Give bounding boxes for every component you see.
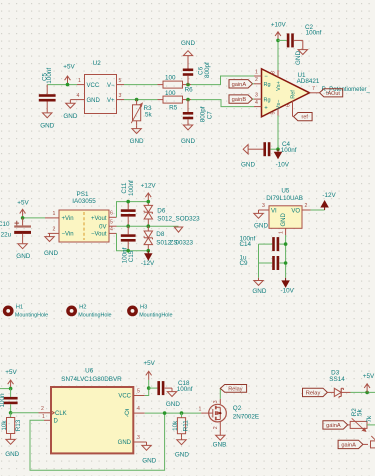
- wire C14/C9 left to ground: [258, 244, 260, 278]
- capacitor C18 100nf: [149, 380, 193, 395]
- svg-text:+5V: +5V: [363, 373, 375, 380]
- svg-text:MountingHole: MountingHole: [78, 312, 111, 318]
- capacitor C10 22u polarized: [0, 218, 31, 243]
- U6 pin 3 GND: [118, 435, 147, 446]
- svg-text:H3: H3: [140, 305, 147, 311]
- power -12V at U5 output: [321, 192, 336, 210]
- svg-text:gainA: gainA: [326, 423, 341, 429]
- svg-text:R6: R6: [185, 87, 194, 94]
- ground right of C2: [295, 40, 308, 65]
- mounting hole H1: [3, 305, 48, 319]
- svg-text:+5V: +5V: [5, 369, 17, 376]
- svg-text:V−: V−: [107, 83, 115, 89]
- svg-text:D: D: [54, 419, 59, 425]
- svg-text:+12V: +12V: [141, 182, 157, 189]
- svg-text:D8: D8: [156, 231, 165, 238]
- svg-text:7: 7: [312, 86, 315, 92]
- ps module PS1 box: [59, 210, 109, 242]
- tvs diode D6: [144, 202, 200, 227]
- svg-text:2: 2: [41, 406, 44, 412]
- junction C9 right: [284, 261, 288, 265]
- U1 pin 4 +IN: [254, 100, 268, 112]
- PS1 pin 5 0V: [99, 219, 116, 230]
- wire R5 to op-amp pin 4: [191, 100, 254, 107]
- wire R2 to right edge: [367, 424, 375, 426]
- wire U2 V- to R6: [124, 84, 158, 86]
- wire op-amp Vs- down: [277, 116, 279, 150]
- svg-text:D6: D6: [157, 207, 166, 214]
- svg-text:10k: 10k: [172, 420, 179, 431]
- svg-text:V+: V+: [107, 98, 115, 104]
- ground at U2 pin 4: [63, 100, 77, 121]
- svg-text:GND: GND: [166, 401, 180, 408]
- U1 reference and value: [297, 72, 320, 85]
- transistor Q2 2N7002E: [209, 399, 259, 432]
- svg-text:U2: U2: [93, 60, 102, 67]
- svg-text:GND: GND: [241, 162, 255, 169]
- U1 pin 8 Vs+: [271, 70, 282, 91]
- junction C11 bottom: [126, 224, 130, 228]
- svg-text:1: 1: [279, 231, 285, 234]
- U1 pin 5 Vs-: [271, 100, 282, 116]
- ground below caps: [252, 278, 266, 295]
- svg-text:GND: GND: [130, 138, 144, 145]
- junction R6/C6: [186, 83, 190, 87]
- svg-text:Q: Q: [124, 411, 129, 417]
- U1 pin 1 -IN: [254, 69, 268, 80]
- power -10V below op-amp: [275, 149, 290, 168]
- junction C14 right: [284, 242, 288, 246]
- svg-text:100nf: 100nf: [128, 180, 135, 196]
- power +5V (U6 VCC): [144, 360, 156, 380]
- trim pot R2 5k: [348, 408, 367, 432]
- svg-text:+Vin: +Vin: [62, 216, 74, 222]
- svg-text:SS14: SS14: [329, 376, 345, 383]
- svg-text:-12V: -12V: [141, 260, 155, 267]
- svg-text:U5: U5: [281, 187, 290, 194]
- ground below C5: [40, 112, 54, 129]
- svg-text:2: 2: [305, 203, 308, 209]
- svg-text:7k: 7k: [366, 415, 373, 423]
- ic U6 box: [51, 387, 133, 453]
- svg-text:PS1: PS1: [77, 191, 89, 198]
- tvs diode D8: [144, 226, 193, 251]
- svg-text:Rg: Rg: [264, 82, 271, 88]
- svg-text:GND: GND: [63, 113, 77, 120]
- svg-text:+5V: +5V: [63, 64, 75, 71]
- svg-text:VO: VO: [291, 209, 300, 215]
- svg-text:100nf: 100nf: [177, 386, 193, 393]
- svg-text:IAOut: IAOut: [326, 91, 340, 97]
- wire U5 VO to -12V: [311, 209, 325, 211]
- svg-text:−: −: [264, 74, 268, 80]
- U5 pin 1 GND: [279, 213, 287, 236]
- open arrow 0V: [174, 227, 182, 232]
- resistor at right edge (clipped): [371, 436, 375, 448]
- hier label ref: [294, 113, 313, 121]
- power -12V below D8: [141, 251, 155, 267]
- svg-text:4: 4: [77, 93, 80, 99]
- svg-text:6: 6: [110, 210, 113, 216]
- svg-text:GND: GND: [295, 51, 302, 65]
- junction D6/D8 mid: [147, 224, 151, 228]
- diode D3 SS14 schottky: [327, 370, 350, 399]
- svg-text:2N7002E: 2N7002E: [233, 413, 259, 420]
- wire D feedback loop: [30, 413, 165, 470]
- junction CLK/R13: [9, 411, 13, 415]
- U5 reference and value: [266, 187, 303, 202]
- PS1 reference and value: [72, 191, 96, 205]
- svg-text:C7: C7: [207, 111, 214, 120]
- svg-text:5: 5: [110, 219, 113, 225]
- svg-text:GND: GND: [16, 253, 30, 260]
- ground GNB below Q2: [213, 432, 227, 449]
- svg-text:gainA: gainA: [232, 82, 247, 88]
- U6 pin 2 CLK: [39, 406, 67, 417]
- junction +5V: [66, 83, 70, 87]
- svg-text:R13: R13: [15, 419, 22, 431]
- wire VCC to +5V and C18: [145, 380, 149, 396]
- capacitor C5 100nf: [39, 68, 56, 113]
- svg-text:5k: 5k: [356, 408, 363, 416]
- PS1 pin 2 -Vin: [48, 227, 74, 238]
- svg-text:IA03055: IA03055: [72, 198, 96, 205]
- capacitor C4 100nf: [252, 141, 297, 156]
- U1 pin 3 Rg: [254, 92, 271, 103]
- svg-text:0V: 0V: [99, 224, 106, 230]
- wire C5 to U2 VCC: [47, 84, 77, 86]
- U6 reference and value: [61, 367, 122, 382]
- svg-text:gainA: gainA: [341, 443, 356, 449]
- svg-text:gainB: gainB: [232, 97, 247, 103]
- capacitor C2 100nf: [278, 24, 322, 47]
- wire R6 to op-amp pin 1: [191, 76, 254, 85]
- svg-text:1: 1: [53, 211, 56, 217]
- svg-text:2: 2: [255, 77, 258, 83]
- svg-text:C10: C10: [0, 221, 10, 228]
- PS1 pin 1 +Vin: [45, 211, 74, 222]
- wire U2 V+ to R3/R5: [124, 99, 158, 101]
- svg-text:VCC: VCC: [87, 83, 100, 89]
- U2 pin 1 VCC: [77, 78, 100, 89]
- PS1 pin 4 -Vout: [91, 227, 117, 238]
- svg-text:Q2: Q2: [233, 405, 242, 412]
- hier label gainB: [229, 95, 254, 103]
- svg-text:100: 100: [165, 75, 176, 82]
- resistor R13 10k: [1, 413, 22, 439]
- svg-text:GND: GND: [181, 40, 195, 47]
- svg-text:-10V: -10V: [276, 162, 290, 169]
- capacitor C11 100nf: [121, 180, 136, 226]
- wire +5V to PS1 +Vin: [23, 217, 45, 219]
- op-amp U1 AD8421 triangle: [262, 69, 310, 117]
- svg-text:-12V: -12V: [322, 192, 336, 199]
- ground below C10: [16, 243, 30, 260]
- svg-text:GND: GND: [44, 250, 58, 257]
- U6 pin 1 D: [42, 414, 58, 425]
- mounting hole H2: [66, 305, 111, 319]
- U6 pin 5 VCC: [118, 389, 144, 400]
- svg-text:H1: H1: [16, 305, 23, 311]
- svg-text:100nf: 100nf: [306, 30, 322, 37]
- svg-text:4: 4: [137, 406, 140, 412]
- ic U2 box: [85, 75, 117, 114]
- U6 pin 4 Q: [124, 406, 144, 417]
- junction R5/C7: [186, 98, 190, 102]
- svg-text:DI79L10UAB: DI79L10UAB: [266, 195, 303, 202]
- capacitor C14 100nf: [240, 235, 286, 251]
- svg-text:5k: 5k: [145, 112, 153, 119]
- ground above C6: [181, 40, 195, 69]
- svg-text:800pf: 800pf: [199, 106, 206, 122]
- svg-text:CLK: CLK: [55, 411, 67, 417]
- svg-text:Vs+: Vs+: [276, 81, 282, 91]
- Q2 pin 1 gate: [198, 406, 208, 413]
- svg-text:Vs−: Vs−: [276, 100, 282, 110]
- hier label IAOut: [320, 89, 343, 97]
- hier label gainA (row 2): [338, 440, 368, 448]
- svg-text:MountingHole: MountingHole: [15, 312, 48, 318]
- svg-text:+5V: +5V: [144, 360, 156, 367]
- regulator U5 box: [269, 206, 302, 229]
- capacitor C7 800pf: [183, 100, 214, 123]
- svg-text:Relay: Relay: [306, 391, 321, 397]
- svg-text:22u: 22u: [1, 232, 12, 239]
- svg-text:SN74LVC1G80DBVR: SN74LVC1G80DBVR: [61, 376, 122, 383]
- svg-text:Relay: Relay: [228, 387, 243, 393]
- svg-text:GND: GND: [175, 452, 189, 459]
- wire 0V rail: [117, 225, 179, 227]
- junction +10V/C2: [276, 39, 280, 43]
- svg-text:100nf: 100nf: [46, 68, 53, 84]
- svg-text:R11: R11: [182, 420, 189, 432]
- svg-text:10k: 10k: [1, 420, 8, 431]
- wire from left edge to +5V: [0, 388, 11, 390]
- U2 pin 5 V-: [107, 78, 124, 89]
- ground below R11: [175, 437, 189, 458]
- svg-text:MountingHole: MountingHole: [139, 312, 172, 318]
- junction VCC/C18: [147, 386, 151, 390]
- wire -Vout to -12V rail: [117, 233, 149, 250]
- svg-text:Rg: Rg: [264, 97, 271, 103]
- svg-text:GND: GND: [181, 138, 195, 145]
- svg-text:1: 1: [78, 78, 81, 84]
- svg-text:R5: R5: [169, 105, 178, 112]
- ground below R3: [130, 125, 144, 145]
- junction D8 bottom: [147, 249, 151, 253]
- svg-text:C14: C14: [240, 241, 252, 248]
- U5 pin 2 VO: [291, 203, 310, 214]
- svg-text:GND: GND: [87, 98, 101, 104]
- PS1 unit separator dashed: [83, 212, 85, 240]
- svg-text:1: 1: [198, 406, 201, 412]
- power +10V: [271, 21, 287, 40]
- power -10V below U5: [281, 278, 295, 295]
- capacitor C15 100nf: [121, 226, 136, 263]
- junction +5V left: [9, 387, 13, 391]
- power +5V (U6 left): [5, 369, 17, 389]
- ground at U5 VI: [254, 210, 269, 230]
- svg-text:1: 1: [255, 69, 258, 75]
- U1 pin 6 Ref: [285, 90, 296, 117]
- svg-text:00323: 00323: [176, 239, 194, 246]
- svg-text:3: 3: [213, 400, 219, 403]
- svg-text:3: 3: [137, 435, 140, 441]
- junction Q/loop: [163, 411, 167, 415]
- power +12V: [141, 182, 157, 201]
- wire +Vout to +12V rail: [117, 202, 149, 218]
- hier label Relay at Q2: [220, 385, 246, 399]
- junction +5V/C10: [21, 216, 25, 220]
- ground left of C4: [241, 145, 255, 169]
- svg-text:4: 4: [110, 227, 113, 233]
- resistor R5 100: [158, 90, 192, 112]
- svg-text:5: 5: [119, 78, 122, 84]
- junction R3 top: [135, 98, 139, 102]
- PS1 pin 6 +Vout: [91, 210, 117, 222]
- svg-text:VCC: VCC: [118, 394, 131, 400]
- svg-text:+Vout: +Vout: [91, 216, 107, 222]
- svg-text:GND: GND: [142, 458, 156, 465]
- svg-text:GNB: GNB: [213, 441, 227, 448]
- svg-text:GND: GND: [118, 440, 132, 446]
- potentiometer R3 5k: [131, 100, 152, 126]
- wire to U6 CLK: [11, 412, 39, 414]
- junction Q/R11: [180, 411, 184, 415]
- svg-text:800pf: 800pf: [204, 62, 211, 78]
- wire U5 GND down to -10V: [285, 235, 287, 278]
- svg-text:+10V: +10V: [271, 21, 287, 28]
- svg-text:3: 3: [255, 92, 258, 98]
- capacitor C6 800pf: [183, 62, 211, 85]
- ground at U6 pin 3: [142, 442, 157, 465]
- ground at PS1 -Vin: [44, 233, 58, 257]
- U5 pin 3 VI: [259, 203, 278, 214]
- junction D6 top: [147, 200, 151, 204]
- resistor R6 100: [158, 75, 194, 94]
- svg-text:VI: VI: [271, 209, 277, 215]
- svg-text:2: 2: [213, 426, 219, 429]
- svg-text:4: 4: [255, 100, 258, 106]
- hier label gainA (row 1): [323, 421, 348, 429]
- svg-text:−Vin: −Vin: [62, 232, 74, 238]
- resistor R11 10k: [172, 413, 189, 437]
- ground below C7: [181, 122, 195, 145]
- mounting hole H3: [127, 305, 172, 319]
- svg-text:Ref: Ref: [290, 90, 296, 99]
- ground right of C18: [166, 388, 180, 408]
- svg-text:AD8421: AD8421: [297, 78, 320, 85]
- svg-text:1: 1: [42, 414, 45, 420]
- junction D3/+5V: [365, 391, 369, 395]
- svg-text:100: 100: [165, 90, 176, 97]
- svg-text:6: 6: [285, 104, 291, 107]
- svg-text:3: 3: [262, 203, 265, 209]
- capacitor 100nf (left of U6): [0, 389, 18, 413]
- hier label Relay to D3: [303, 388, 328, 396]
- power +5V (relay): [363, 373, 375, 392]
- wire Q to Q2 gate: [145, 412, 202, 414]
- ground below R13: [5, 439, 19, 458]
- U2 pin 4 GND: [70, 93, 100, 104]
- U2 pin 3 V+: [107, 93, 124, 104]
- U1 pin 2 Rg: [254, 77, 271, 88]
- svg-text:−Vout: −Vout: [91, 232, 107, 238]
- junction C4/-10V: [276, 147, 280, 151]
- svg-text:2: 2: [53, 227, 56, 233]
- svg-text:GND: GND: [5, 451, 19, 458]
- svg-text:ref: ref: [302, 115, 309, 121]
- svg-text:H2: H2: [79, 305, 86, 311]
- power +5V (U2 supply): [63, 64, 75, 85]
- power +5V (PS1): [17, 200, 29, 218]
- svg-text:8: 8: [271, 71, 277, 74]
- svg-text:5: 5: [271, 111, 277, 114]
- svg-text:U6: U6: [85, 367, 94, 374]
- svg-text:GND: GND: [254, 223, 268, 230]
- svg-text:GND: GND: [40, 122, 54, 129]
- U1 pin 7 output: [310, 86, 320, 93]
- svg-text:C9: C9: [240, 260, 249, 267]
- svg-text:5: 5: [137, 389, 140, 395]
- svg-text:GND: GND: [252, 288, 266, 295]
- junction C15 bottom: [126, 249, 130, 253]
- svg-text:S012_SOD323: S012_SOD323: [157, 215, 200, 222]
- svg-text:GND: GND: [281, 213, 287, 227]
- wire +10V to op-amp Vs+: [277, 40, 279, 70]
- svg-text:-10V: -10V: [281, 287, 295, 294]
- svg-text:+: +: [264, 105, 268, 111]
- junction C11 top: [126, 200, 130, 204]
- wire D3 to +5V: [351, 391, 375, 393]
- hier label gainA: [229, 80, 254, 88]
- svg-text:100n: 100n: [0, 393, 6, 408]
- svg-text:+5V: +5V: [17, 200, 29, 207]
- svg-text:100nf: 100nf: [281, 147, 297, 154]
- capacitor C9 1u: [240, 254, 286, 270]
- svg-text:3: 3: [119, 93, 122, 99]
